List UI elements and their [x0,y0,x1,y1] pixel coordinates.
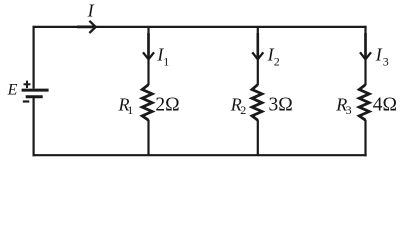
wire branch 3 lower (R3 to bottom wire) [364,120,366,157]
svg-text:E: E [7,81,18,98]
battery E positive plate (long) [22,89,49,92]
wire branch 2 lower (R2 to bottom wire) [257,120,259,155]
wire branch 2 upper (top wire node to R2) [257,27,259,85]
arrow for current I2 on branch 2 [252,33,263,59]
svg-text:1: 1 [163,55,169,69]
arrow for current I on top wire [77,21,96,33]
battery plus sign [24,81,31,88]
wire branch 1 upper (top wire node to R1) [147,27,149,85]
resistor R3 zigzag [359,85,369,121]
svg-text:1: 1 [127,103,133,117]
svg-text:I: I [87,1,95,21]
wire branch 3 upper (top right corner to R3) [364,26,366,85]
wire left vertical lower (battery - plate down to bottom wire) [32,97,34,157]
svg-text:2: 2 [240,103,246,117]
battery E negative plate (short) [26,95,43,98]
svg-text:3Ω: 3Ω [269,94,293,115]
svg-text:2: 2 [274,55,280,69]
wire left vertical upper (top wire down to battery + plate) [32,26,34,89]
arrow for current I3 on branch 3 [360,33,371,59]
wire bottom horizontal [33,154,367,156]
svg-text:4Ω: 4Ω [373,94,397,115]
wire branch 1 lower (R1 to bottom wire) [147,120,149,155]
resistor R2 zigzag [252,85,262,121]
svg-text:3: 3 [346,103,352,117]
arrow for current I1 on branch 1 [143,33,154,59]
resistor R1 zigzag [142,85,152,121]
svg-text:2Ω: 2Ω [155,94,179,115]
svg-text:I: I [375,45,383,65]
battery minus sign [23,100,30,102]
wire top horizontal [33,26,367,28]
svg-text:3: 3 [383,55,389,69]
